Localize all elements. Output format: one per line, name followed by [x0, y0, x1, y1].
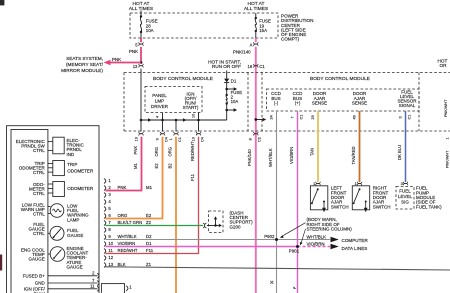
svg-text:F11: F11 — [190, 173, 195, 181]
svg-text:(-): (-) — [274, 100, 279, 105]
svg-text:SIGNAL: SIGNAL — [399, 103, 416, 108]
svg-text:11: 11 — [108, 248, 113, 253]
svg-text:C1: C1 — [259, 64, 265, 69]
svg-text:ODOMETER: ODOMETER — [67, 186, 94, 191]
cluster connector pin 10 — [104, 241, 152, 247]
svg-text:D1: D1 — [231, 79, 237, 84]
svg-text:13: 13 — [133, 64, 138, 69]
svg-text:16: 16 — [248, 64, 253, 69]
wire tan — [317, 111, 319, 182]
cluster connector pin 1 — [104, 178, 111, 183]
cluster connector pin 4 — [104, 199, 111, 204]
svg-text:1: 1 — [169, 138, 173, 140]
label vio/brn at data line — [307, 242, 325, 247]
label electronic prndl sw ctrl — [16, 139, 46, 153]
svg-text:PANEL: PANEL — [152, 93, 167, 98]
pin 10 C4 connector — [191, 132, 204, 142]
label red/wht F11 vertical — [190, 141, 195, 181]
svg-text:DK BLU: DK BLU — [397, 145, 402, 160]
svg-text:GND: GND — [35, 281, 46, 286]
svg-text:GAUGE: GAUGE — [67, 233, 83, 238]
cluster connector pin 9 — [104, 234, 152, 240]
label fuel level sensor signal — [397, 89, 417, 108]
pin 3 C1 fuel — [398, 115, 411, 120]
label door ajar sense 1 — [312, 91, 327, 105]
svg-text:F11: F11 — [146, 248, 154, 253]
svg-text:C1: C1 — [299, 115, 303, 120]
svg-text:P901: P901 — [289, 248, 300, 253]
engine coolant temperature gauge — [48, 247, 65, 262]
svg-text:29: 29 — [311, 115, 315, 119]
ign off row — [24, 284, 99, 292]
svg-text:CTRL: CTRL — [33, 191, 45, 196]
label hot in start run or off — [208, 60, 241, 70]
svg-text:3: 3 — [398, 116, 402, 118]
svg-text:M1: M1 — [146, 185, 153, 190]
odometer box — [48, 182, 65, 197]
right front door ajar switch — [352, 186, 369, 212]
svg-text:7: 7 — [290, 116, 294, 118]
wire wht/blk — [276, 111, 278, 293]
svg-text:12: 12 — [108, 255, 113, 260]
svg-text:(MEMORY SEAT/: (MEMORY SEAT/ — [66, 62, 104, 67]
connector 13 at BCM — [133, 64, 144, 69]
svg-text:TRIP: TRIP — [67, 162, 77, 167]
svg-text:VIO/BRN: VIO/BRN — [307, 242, 325, 247]
pin 1 right door switch — [355, 181, 362, 186]
cluster connector pin 3 — [104, 192, 111, 197]
svg-text:WHT/BLK: WHT/BLK — [307, 235, 327, 240]
gnd row — [35, 278, 99, 286]
svg-text:SEATS SYSTEM,: SEATS SYSTEM, — [66, 56, 103, 61]
label pnk/140 (vertical) — [247, 149, 252, 166]
svg-text:D1: D1 — [146, 241, 152, 246]
svg-text:B2: B2 — [167, 163, 172, 169]
svg-text:PNK: PNK — [112, 57, 121, 62]
label left front door ajar switch — [331, 186, 349, 210]
label vio/brn vertical — [289, 147, 294, 164]
svg-text:9: 9 — [155, 138, 159, 140]
pin 24 — [269, 115, 273, 119]
connector C5 below fuse 28 — [135, 42, 143, 47]
svg-text:Z2: Z2 — [146, 220, 152, 225]
svg-text:CTRL: CTRL — [33, 212, 45, 217]
right edge pin label — [444, 99, 449, 168]
cluster connector pin 7 — [104, 220, 152, 226]
wire org B2 — [175, 137, 177, 293]
node fuse2 top splice — [225, 87, 237, 90]
svg-text:VIO/BRN: VIO/BRN — [289, 147, 294, 164]
pin 1 left door switch — [313, 181, 320, 186]
label panel lmp driver — [151, 93, 169, 109]
label org E2 vertical — [154, 147, 159, 169]
svg-text:ALL TIMES: ALL TIMES — [244, 6, 268, 12]
label pnk M1 vertical — [133, 146, 138, 169]
wire blk/lt grn Z2 — [106, 225, 204, 227]
label pnk (seats branch) — [112, 57, 121, 62]
label elec-tronic prndl ind — [67, 138, 85, 157]
svg-text:TAN/RED: TAN/RED — [351, 146, 356, 164]
label odo-meter ctrl — [29, 182, 46, 196]
svg-text:CTRL: CTRL — [33, 170, 45, 175]
svg-text:RUN OR OFF: RUN OR OFF — [212, 64, 241, 69]
svg-text:FUEL TANK): FUEL TANK) — [416, 204, 442, 209]
svg-text:PNK/140: PNK/140 — [233, 49, 251, 54]
svg-text:MIRROR MODULE): MIRROR MODULE) — [61, 68, 103, 73]
left front door ajar switch — [310, 186, 327, 212]
svg-text:LMP: LMP — [155, 99, 164, 104]
svg-text:WHT/BLK: WHT/BLK — [118, 234, 137, 239]
svg-text:4: 4 — [155, 116, 159, 118]
pin 4 of inner box — [155, 116, 159, 118]
svg-text:VIO/BRN: VIO/BRN — [118, 241, 136, 246]
svg-text:SWITCH: SWITCH — [331, 204, 349, 209]
internal wire panel lamp 2 — [175, 120, 177, 132]
fuse 19 15A — [255, 13, 271, 38]
wire pnk fuse28 drop — [140, 38, 142, 63]
label tan vertical — [309, 148, 314, 156]
svg-text:COMPT): COMPT) — [281, 37, 300, 42]
svg-text:24: 24 — [269, 115, 273, 119]
cluster connector pin 11 — [104, 248, 154, 254]
svg-text:COMPUTER: COMPUTER — [342, 238, 369, 243]
connector at G200 — [203, 223, 207, 228]
svg-text:PNK: PNK — [133, 146, 138, 155]
label odometer — [67, 186, 94, 191]
inner box panel lmp driver / ign — [145, 87, 202, 113]
label computer data lines — [342, 238, 369, 251]
wire org E2 — [106, 137, 163, 219]
instrument cluster inner box — [11, 130, 48, 293]
svg-text:Z1: Z1 — [146, 262, 152, 267]
svg-text:PNK: PNK — [118, 185, 127, 190]
wire vio/brn dashed — [298, 246, 331, 248]
svg-text:WHT/BLK: WHT/BLK — [268, 148, 273, 167]
arrow to seats system — [104, 60, 111, 65]
pin 49 — [352, 115, 356, 119]
node fuse2 bottom splice — [225, 105, 237, 121]
wire pnk M1 — [106, 137, 142, 191]
wire vio/brn — [297, 111, 299, 293]
run start row (clipped) — [34, 291, 46, 293]
label hot at all times (left) — [129, 1, 153, 12]
svg-text:GAUGE: GAUGE — [29, 257, 45, 262]
svg-text:1: 1 — [446, 137, 450, 139]
label power distribution center — [281, 14, 313, 42]
label seats system — [61, 56, 104, 73]
wire red/wht F11 — [106, 137, 199, 254]
wire vio/brn D1 row — [106, 246, 298, 248]
svg-text:BODY CONTROL MODULE: BODY CONTROL MODULE — [153, 76, 213, 82]
node P901 — [296, 245, 299, 248]
label hot at all times (right) — [244, 1, 268, 12]
label fuel pump module — [416, 186, 442, 210]
svg-text:49: 49 — [352, 115, 356, 119]
connector 16 C1 — [248, 64, 266, 69]
pointer to P902 — [280, 223, 306, 238]
node P902 — [275, 238, 278, 241]
top left corner mark — [0, 0, 4, 5]
svg-text:BLK: BLK — [118, 262, 126, 267]
label ccd bus plus — [293, 91, 303, 105]
label low fuel warn lmp ctrl — [21, 203, 46, 217]
label door ajar sense 2 — [352, 91, 367, 105]
svg-text:19: 19 — [134, 137, 138, 141]
wire seats branch — [109, 62, 141, 64]
svg-text:START): START) — [183, 105, 199, 110]
internal bus wire — [140, 118, 227, 121]
label dash center support G200 — [230, 210, 254, 229]
bottom connector box — [101, 284, 124, 293]
label wht/blk vertical — [268, 148, 273, 167]
label P902 — [264, 234, 275, 239]
label body control module (right) — [310, 76, 370, 82]
cluster connector pin 5 — [104, 206, 111, 211]
label pnk (vertical wire) — [129, 49, 138, 54]
svg-text:DATA LINES: DATA LINES — [342, 246, 368, 251]
wire cluster pin 6 stub — [106, 218, 108, 220]
wire cluster pin 11 stub — [106, 253, 108, 255]
svg-text:TAN: TAN — [309, 148, 314, 156]
svg-text:P902: P902 — [264, 234, 275, 239]
wire dk blu — [405, 111, 407, 182]
svg-text:(+): (+) — [295, 100, 301, 105]
svg-text:CTRL: CTRL — [33, 231, 45, 236]
svg-text:ORG: ORG — [167, 147, 172, 157]
svg-text:GAUGE: GAUGE — [67, 265, 83, 270]
svg-text:8: 8 — [249, 138, 253, 140]
svg-text:C4: C4 — [200, 137, 204, 142]
low fuel warning lamp — [48, 204, 64, 218]
svg-text:LEVEL: LEVEL — [398, 194, 413, 199]
svg-text:LAMP: LAMP — [67, 217, 79, 222]
svg-text:SIG: SIG — [401, 199, 409, 204]
svg-text:10A: 10A — [231, 99, 239, 104]
electronic prndl ind — [48, 137, 64, 154]
svg-text:C4: C4 — [164, 137, 168, 142]
label engine coolant temperature gauge — [67, 246, 89, 270]
wire blk Z1 — [106, 267, 450, 270]
svg-text:ORG: ORG — [118, 213, 128, 218]
label trip odometer ctrl — [19, 161, 46, 175]
inner box bcm right — [267, 89, 420, 111]
svg-text:STEERING COLUMN): STEERING COLUMN) — [307, 227, 353, 232]
svg-text:DRIVER: DRIVER — [151, 104, 169, 109]
pin 3 fuel level — [401, 181, 408, 186]
cluster connector pin 8 — [104, 227, 111, 232]
svg-text:PNK: PNK — [129, 49, 138, 54]
bottom mark 2 — [293, 286, 296, 288]
wire pnk/140 — [255, 38, 257, 293]
label P901 — [289, 248, 300, 253]
node pnk140 splice with arrow — [254, 118, 266, 121]
bottom mark 1 — [270, 281, 273, 284]
label fuel gauge ctrl — [29, 222, 46, 236]
wire wht/blk D2 row — [106, 239, 331, 241]
svg-text:M1: M1 — [133, 163, 138, 169]
label ccd bus minus — [271, 91, 281, 105]
svg-text:SENSE: SENSE — [352, 100, 367, 105]
svg-text:10A: 10A — [146, 28, 154, 33]
svg-text:ODOMETER: ODOMETER — [67, 169, 94, 174]
instrument cluster outer box — [7, 126, 100, 293]
svg-text:PNK/140: PNK/140 — [247, 149, 252, 166]
svg-text:10: 10 — [191, 114, 195, 118]
svg-text:CTRL: CTRL — [33, 148, 45, 153]
svg-text:FUEL: FUEL — [399, 189, 411, 194]
body control module outline — [124, 73, 450, 132]
wire tan/red — [359, 111, 361, 182]
pin 10 of inner box — [191, 114, 195, 118]
label eng cool temp gauge — [21, 248, 45, 262]
label ign off run start — [183, 91, 199, 110]
diode D1 — [224, 71, 237, 84]
svg-text:RED/WHT: RED/WHT — [190, 141, 195, 161]
svg-text:SENSE: SENSE — [312, 100, 327, 105]
svg-text:BODY CONTROL MODULE: BODY CONTROL MODULE — [310, 76, 370, 82]
connector below fuse 19 — [250, 42, 258, 47]
pin 29 — [311, 115, 315, 119]
internal wire panel lamp 1 — [162, 113, 164, 132]
pin 7 C1 — [290, 115, 303, 120]
svg-text:D2: D2 — [146, 234, 152, 239]
svg-text:G200: G200 — [230, 224, 242, 229]
svg-text:IND: IND — [67, 152, 76, 157]
label wht/blk at data line — [307, 235, 327, 240]
fused b+ row — [23, 271, 99, 279]
pointer to P901 — [300, 229, 306, 245]
svg-text:10: 10 — [108, 241, 113, 246]
svg-text:PNK/WHT: PNK/WHT — [446, 150, 450, 168]
ground G200 box — [207, 211, 223, 233]
svg-text:RED/WHT: RED/WHT — [118, 248, 138, 253]
svg-text:11: 11 — [90, 284, 95, 289]
label pnk/140 (horizontal) — [233, 49, 251, 54]
cluster connector pin 6 — [104, 213, 152, 219]
label low fuel warning lamp — [67, 203, 89, 222]
svg-text:C2: C2 — [258, 137, 262, 142]
wire cluster pin 2 stub — [106, 190, 108, 192]
trip odometer box — [48, 161, 65, 176]
label right front door ajar switch — [373, 186, 391, 210]
fuel level sig box — [396, 187, 414, 210]
label body warn steering column — [307, 217, 353, 231]
fuse FUSE 2 10A — [226, 90, 243, 105]
wire into BCM from connector 13 — [140, 69, 142, 120]
label body control module (left) — [153, 76, 213, 82]
left edge wire stub — [0, 255, 2, 271]
power distribution center fuse box — [130, 13, 278, 38]
svg-text:10: 10 — [191, 137, 195, 141]
pin 19 connector — [134, 132, 143, 142]
svg-text:C1: C1 — [178, 137, 182, 142]
fuse 28 10A — [140, 11, 158, 39]
wire d1 to fuse2 — [226, 83, 228, 96]
label hot (right edge) — [438, 58, 448, 68]
arrow computer data line 1 — [331, 237, 339, 243]
cluster connector pin 13 — [104, 262, 152, 268]
fuel gauge — [48, 226, 64, 240]
pin 1 bottom box — [126, 285, 132, 291]
svg-text:BLK/LT GRN: BLK/LT GRN — [118, 220, 143, 225]
svg-text:PNK/WHT: PNK/WHT — [444, 99, 448, 117]
svg-text:E2: E2 — [154, 163, 159, 169]
svg-text:OR: OR — [440, 63, 448, 68]
pin 8 C2 connector — [249, 132, 262, 142]
label tan/red vertical — [351, 146, 356, 164]
label org B2 vertical — [167, 147, 172, 169]
svg-text:FUSED B+: FUSED B+ — [23, 273, 46, 278]
node seats splice — [140, 61, 143, 64]
svg-text:ORG: ORG — [154, 147, 159, 157]
pin 9 C4 connector — [155, 132, 168, 142]
label fuel gauge text — [67, 228, 83, 238]
cluster connector pin 12 — [104, 255, 114, 260]
svg-text:A: A — [250, 43, 253, 48]
label trip odometer — [67, 162, 94, 174]
internal wire fused b+ — [140, 120, 142, 132]
pin 1 C1 connector — [169, 132, 182, 142]
label dk blu vertical — [397, 145, 402, 160]
internal wire ign — [198, 113, 200, 132]
cluster connector pin 2 — [104, 185, 153, 191]
svg-text:15A: 15A — [259, 28, 267, 33]
svg-text:C1: C1 — [407, 115, 411, 120]
svg-text:E2: E2 — [146, 213, 152, 218]
arrow computer data line 2 — [331, 244, 339, 250]
svg-text:SWITCH: SWITCH — [373, 204, 391, 209]
